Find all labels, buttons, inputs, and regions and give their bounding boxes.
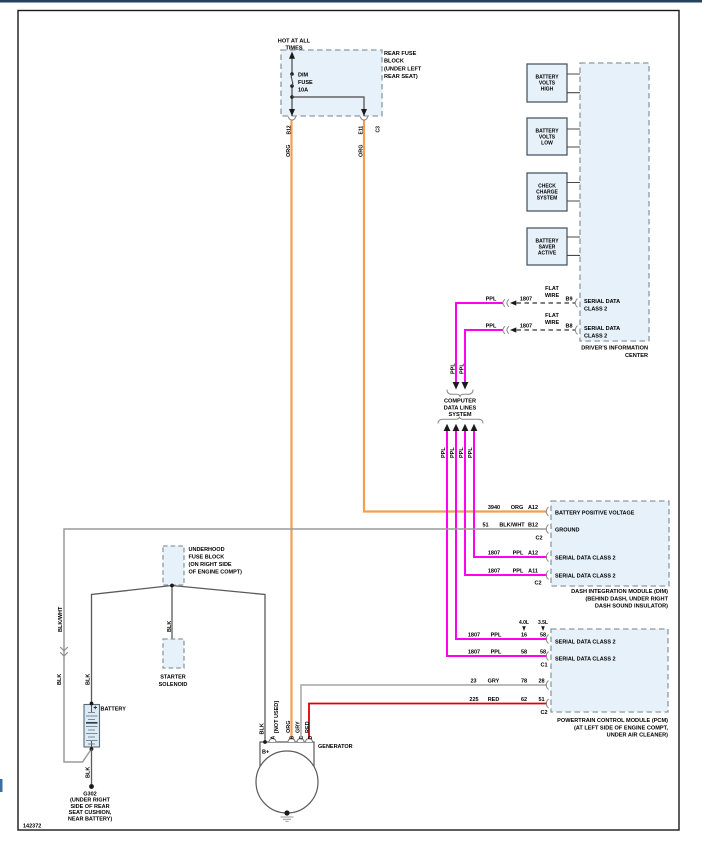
svg-text:SERIAL DATA CLASS 2: SERIAL DATA CLASS 2 (555, 640, 616, 646)
svg-text:58: 58 (540, 650, 546, 656)
svg-text:B+: B+ (262, 750, 269, 756)
upper brace (447, 390, 473, 398)
top browser bar (0, 0, 702, 3)
svg-text:SERIAL DATA: SERIAL DATA (584, 299, 620, 305)
svg-text:SERIAL DATA CLASS 2: SERIAL DATA CLASS 2 (555, 574, 616, 580)
rear fuse block box (281, 50, 382, 116)
svg-text:DIM: DIM (298, 73, 309, 79)
wire BLK/WHT ground loop from DIM B12 to battery negative (64, 529, 547, 762)
svg-text:C1: C1 (540, 663, 547, 669)
inline connector row2 (503, 326, 509, 334)
connector arc DIM row4 (546, 571, 548, 580)
svg-text:78: 78 (521, 679, 527, 685)
node fuse block terminal (170, 584, 174, 588)
svg-text:B12: B12 (528, 523, 538, 529)
svg-text:16: 16 (521, 633, 527, 639)
lower brace (438, 417, 483, 424)
svg-text:ACTIVE: ACTIVE (538, 251, 557, 257)
svg-text:HIGH: HIGH (541, 87, 554, 93)
generator housing (260, 742, 314, 767)
left edge scrollbar tick (0, 779, 3, 792)
node battery negative (90, 747, 94, 751)
svg-text:[NOT USED]: [NOT USED] (274, 701, 280, 733)
wires volts low to DIC (567, 129, 580, 147)
svg-text:LOW: LOW (541, 141, 553, 147)
svg-text:A11: A11 (528, 569, 538, 575)
wire PPL to PCM row2 (447, 431, 547, 656)
indicator CHECK CHARGE SYSTEM (527, 173, 567, 211)
svg-text:1807: 1807 (520, 297, 532, 303)
svg-text:C2: C2 (534, 581, 541, 587)
svg-text:C2: C2 (540, 710, 547, 716)
arrow up hot feed (289, 52, 295, 59)
wire GRY generator C to PCM (301, 685, 547, 739)
DIM box (551, 501, 669, 586)
arrow down into system 1 (453, 382, 460, 390)
terminal bump B (288, 739, 295, 742)
wire RED generator D to PCM (309, 704, 547, 739)
svg-text:1807: 1807 (488, 569, 500, 575)
svg-text:NEAR BATTERY): NEAR BATTERY) (68, 816, 112, 822)
svg-text:GRY: GRY (296, 721, 302, 733)
svg-text:BLK: BLK (86, 767, 92, 778)
svg-text:1807: 1807 (488, 551, 500, 557)
svg-text:DATA LINES: DATA LINES (444, 405, 477, 411)
indicator BATTERY VOLTS LOW (527, 118, 567, 155)
svg-text:RED: RED (305, 721, 311, 733)
connector arc at DIC row1 (575, 299, 577, 308)
svg-text:ORG: ORG (511, 505, 524, 511)
indicator BATTERY SAVER ACTIVE (527, 228, 567, 265)
svg-text:G302: G302 (83, 792, 96, 798)
svg-text:PPL: PPL (460, 363, 466, 374)
arrow down B12 (289, 109, 295, 116)
svg-text:BATTERY POSITIVE VOLTAGE: BATTERY POSITIVE VOLTAGE (555, 511, 635, 517)
svg-text:51: 51 (482, 523, 488, 529)
indicator BATTERY VOLTS HIGH (527, 64, 567, 102)
svg-text:1807: 1807 (468, 633, 480, 639)
svg-text:225: 225 (469, 697, 478, 703)
battery symbol (84, 705, 100, 748)
svg-text:OF ENGINE COMPT): OF ENGINE COMPT) (189, 570, 243, 576)
svg-text:(ON RIGHT SIDE: (ON RIGHT SIDE (189, 562, 232, 568)
terminal bump A (269, 739, 276, 742)
svg-text:CLASS 2: CLASS 2 (584, 307, 607, 313)
svg-text:SERIAL DATA: SERIAL DATA (584, 326, 620, 332)
wire PPL serial data row 1 (456, 303, 503, 383)
svg-text:UNDER AIR CLEANER): UNDER AIR CLEANER) (607, 733, 668, 739)
svg-text:GROUND: GROUND (555, 528, 579, 534)
arrow up out of system 3 (462, 424, 469, 431)
svg-text:142372: 142372 (23, 824, 41, 830)
svg-text:PPL: PPL (486, 324, 497, 330)
terminal bump D (306, 739, 313, 742)
svg-text:A12: A12 (528, 505, 538, 511)
svg-text:28: 28 (538, 679, 544, 685)
svg-text:WIRE: WIRE (545, 320, 560, 326)
svg-text:SIDE OF REAR: SIDE OF REAR (70, 804, 109, 810)
flat wire dashed row1 (517, 302, 576, 304)
wires check charge to DIC (567, 183, 580, 202)
underhood fuse block box (163, 546, 184, 585)
svg-text:STARTER: STARTER (160, 675, 186, 681)
connector arc DIM row3 (546, 553, 548, 562)
svg-text:3940: 3940 (488, 505, 500, 511)
svg-text:PPL: PPL (513, 569, 524, 575)
terminal bump C (297, 739, 304, 742)
svg-text:CENTER: CENTER (625, 353, 648, 359)
svg-text:PPL: PPL (486, 297, 497, 303)
svg-text:PPL: PPL (491, 633, 502, 639)
svg-text:PPL: PPL (451, 363, 457, 374)
connector bump E11 (361, 117, 368, 121)
inline connector chevrons (60, 647, 68, 656)
wire ORG from E11 to DIM A12 (364, 121, 547, 512)
svg-text:10A: 10A (298, 87, 308, 93)
wires battery saver to DIC (567, 237, 580, 255)
svg-text:58: 58 (540, 633, 546, 639)
svg-text:(UNDER RIGHT: (UNDER RIGHT (70, 798, 111, 804)
connector arc PCM row1 (546, 635, 548, 644)
wire BLK battery to ground (91, 749, 93, 785)
inline connector row1 (503, 299, 509, 307)
wire PPL to PCM row1 (456, 431, 547, 639)
wire BLK fuse block to starter solenoid (171, 585, 173, 639)
wire internal jumper to E11 (292, 97, 364, 116)
svg-text:BLK: BLK (57, 674, 63, 685)
svg-text:FUSE BLOCK: FUSE BLOCK (189, 555, 225, 561)
svg-text:SYSTEM: SYSTEM (537, 196, 558, 202)
svg-text:POWERTRAIN CONTROL MODULE (PCM: POWERTRAIN CONTROL MODULE (PCM) (557, 718, 668, 724)
svg-text:GENERATOR: GENERATOR (318, 744, 353, 750)
svg-text:BLK: BLK (167, 621, 173, 632)
svg-text:62: 62 (521, 697, 527, 703)
connector arc PCM row3 (546, 681, 548, 690)
svg-text:B8: B8 (565, 324, 572, 330)
DIC box (580, 63, 649, 341)
fuse DIM 10A (290, 72, 294, 76)
svg-text:PPL: PPL (513, 551, 524, 557)
wire PPL to DIM A12 (474, 431, 547, 557)
arrow up out of system 2 (453, 424, 460, 431)
svg-text:GRY: GRY (488, 679, 500, 685)
svg-text:TIMES: TIMES (285, 46, 302, 52)
wires volts high to DIC (567, 74, 580, 93)
svg-text:BATTERY: BATTERY (101, 707, 127, 713)
svg-text:COMPUTER: COMPUTER (444, 399, 476, 405)
svg-text:(UNDER LEFT: (UNDER LEFT (384, 66, 422, 72)
svg-text:PPL: PPL (468, 447, 474, 458)
ground G302 (89, 784, 94, 789)
svg-text:ORG: ORG (286, 720, 292, 733)
svg-text:DASH SOUND INSULATOR): DASH SOUND INSULATOR) (595, 604, 668, 610)
svg-text:ORG: ORG (286, 144, 292, 157)
connector bump B12 (289, 117, 296, 121)
svg-text:PPL: PPL (441, 447, 447, 458)
svg-text:BLK/WHT: BLK/WHT (58, 606, 64, 632)
battery plus sign (94, 706, 97, 709)
svg-text:(AT LEFT SIDE OF ENGINE COMPT,: (AT LEFT SIDE OF ENGINE COMPT, (574, 725, 669, 731)
svg-text:FLAT: FLAT (545, 313, 559, 319)
svg-text:B: B (290, 736, 296, 740)
svg-text:FLAT: FLAT (545, 286, 559, 292)
wire PPL serial data row 2 (465, 330, 503, 383)
svg-text:(BEHIND DASH, UNDER RIGHT: (BEHIND DASH, UNDER RIGHT (585, 596, 668, 602)
svg-text:HOT AT ALL: HOT AT ALL (278, 39, 311, 45)
svg-text:DASH INTEGRATION MODULE (DIM): DASH INTEGRATION MODULE (DIM) (571, 589, 668, 595)
connector arc PCM row4 (546, 699, 548, 708)
arrow down E11 (361, 109, 367, 116)
connector arc at DIC row2 (575, 326, 577, 335)
svg-text:C2: C2 (535, 536, 542, 542)
svg-text:23: 23 (470, 679, 476, 685)
wire fuse feed vertical (291, 58, 293, 116)
svg-text:REAR FUSE: REAR FUSE (384, 51, 417, 57)
svg-text:SYSTEM: SYSTEM (448, 412, 471, 418)
svg-text:4.0L: 4.0L (519, 620, 529, 626)
svg-text:A: A (271, 736, 277, 740)
connector arc PCM row2 (546, 652, 548, 661)
svg-text:RED: RED (488, 697, 500, 703)
svg-text:PPL: PPL (450, 447, 456, 458)
node battery positive (90, 702, 94, 706)
svg-text:C: C (299, 736, 305, 740)
svg-text:A12: A12 (528, 551, 538, 557)
svg-text:51: 51 (538, 697, 544, 703)
connector arc DIM row2 (546, 525, 548, 534)
svg-text:58: 58 (521, 650, 527, 656)
svg-text:1807: 1807 (468, 650, 480, 656)
arrow down into system 2 (462, 382, 469, 390)
svg-text:D: D (308, 736, 314, 740)
svg-text:SEAT CUSHION,: SEAT CUSHION, (69, 810, 112, 816)
wire ORG from B12 to generator B (290, 121, 292, 739)
svg-text:PPL: PPL (491, 650, 502, 656)
svg-text:3.5L: 3.5L (538, 620, 548, 626)
starter solenoid box (163, 639, 184, 668)
arrow up out of system 4 (471, 424, 478, 431)
svg-text:BLK: BLK (86, 674, 92, 685)
svg-text:UNDERHOOD: UNDERHOOD (189, 547, 225, 553)
svg-text:BLK: BLK (260, 723, 266, 734)
svg-text:SERIAL DATA CLASS 2: SERIAL DATA CLASS 2 (555, 657, 616, 663)
svg-text:SERIAL DATA CLASS 2: SERIAL DATA CLASS 2 (555, 556, 616, 562)
PCM box (551, 629, 668, 712)
svg-text:PPL: PPL (459, 447, 465, 458)
svg-text:SOLENOID: SOLENOID (159, 682, 188, 688)
svg-text:WIRE: WIRE (545, 293, 560, 299)
svg-text:ORG: ORG (359, 144, 365, 157)
wire PPL to DIM A11 (465, 431, 547, 575)
connector arc DIM row1 (546, 507, 548, 516)
svg-text:1807: 1807 (520, 324, 532, 330)
svg-text:BLOCK: BLOCK (384, 59, 404, 65)
svg-text:FUSE: FUSE (298, 80, 313, 86)
svg-text:DRIVER'S INFORMATION: DRIVER'S INFORMATION (581, 346, 648, 352)
svg-text:B9: B9 (565, 297, 572, 303)
generator case ground (284, 810, 289, 815)
generator circle (256, 751, 318, 813)
flat wire dashed row2 (517, 329, 576, 331)
svg-text:REAR SEAT): REAR SEAT) (384, 74, 418, 80)
svg-text:C3: C3 (376, 126, 382, 133)
svg-text:CLASS 2: CLASS 2 (584, 334, 607, 340)
node fuse output junction (290, 95, 294, 99)
arrow up out of system 1 (444, 424, 451, 431)
wire BLK battery positive to fuse block (92, 586, 173, 704)
wire BLK fuse block to generator B+ (172, 586, 265, 743)
svg-text:BLK/WHT: BLK/WHT (499, 523, 525, 529)
